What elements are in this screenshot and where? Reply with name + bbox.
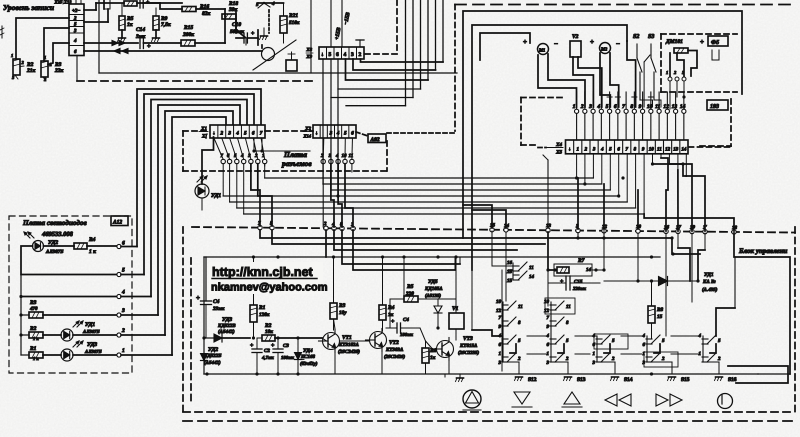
svg-text:+: + — [271, 343, 275, 349]
svg-text:С3: С3 — [283, 343, 289, 349]
svg-text:11: 11 — [529, 265, 534, 271]
svg-text:(б2чб2у): (б2чб2у) — [300, 361, 318, 367]
svg-text:193: 193 — [710, 104, 719, 110]
svg-text:11: 11 — [349, 153, 354, 159]
svg-text:Плата светодиодов: Плата светодиодов — [22, 219, 87, 227]
svg-text:6: 6 — [74, 49, 77, 55]
svg-text:3: 3 — [73, 28, 77, 34]
svg-text:3: 3 — [642, 360, 646, 366]
svg-text:КТ815А: КТ815А — [459, 343, 478, 349]
svg-text:С4: С4 — [403, 317, 409, 323]
svg-text:100мк: 100мк — [281, 355, 294, 361]
svg-text:2: 2 — [661, 356, 665, 362]
svg-text:12: 12 — [665, 147, 671, 153]
svg-text:(2SС2420): (2SС2420) — [384, 354, 405, 360]
svg-text:11: 11 — [518, 304, 523, 310]
svg-text:21к: 21к — [26, 68, 36, 74]
svg-text:nkamnev@yahoo.com: nkamnev@yahoo.com — [211, 282, 328, 294]
svg-text:VТ2: VТ2 — [389, 340, 399, 346]
svg-text:R3: R3 — [29, 300, 37, 306]
svg-text:3: 3 — [351, 52, 354, 58]
svg-text:УД1: УД1 — [85, 322, 95, 328]
svg-text:510к: 510к — [289, 20, 300, 26]
svg-text:2: 2 — [517, 356, 521, 362]
svg-text:КА В:: КА В: — [702, 279, 716, 285]
svg-text:3: 3 — [588, 104, 592, 110]
svg-text:1: 1 — [499, 351, 502, 357]
svg-text:2: 2 — [717, 356, 721, 362]
svg-text:УД4: УД4 — [303, 348, 313, 354]
svg-text:+: + — [147, 43, 151, 50]
svg-text:4: 4 — [344, 52, 347, 58]
svg-text:4: 4 — [600, 147, 604, 153]
svg-text:КС168: КС168 — [300, 354, 315, 360]
svg-text:12: 12 — [496, 308, 502, 314]
svg-text:R21: R21 — [288, 13, 298, 19]
svg-text:+: + — [251, 31, 255, 37]
svg-text:(А5442): (А5442) — [218, 329, 235, 335]
svg-text:R3: R3 — [338, 303, 346, 309]
svg-text:S14: S14 — [624, 377, 633, 383]
svg-text:470: 470 — [29, 306, 38, 312]
svg-text:X14: X14 — [302, 134, 311, 139]
svg-text:R5: R5 — [406, 284, 414, 290]
svg-text:3: 3 — [592, 360, 596, 366]
svg-text:2: 2 — [359, 52, 362, 58]
svg-text:УД1: УД1 — [704, 272, 714, 278]
svg-text:6: 6 — [643, 342, 646, 348]
svg-text:9: 9 — [639, 104, 642, 110]
svg-text:R2: R2 — [29, 326, 37, 332]
svg-text:+: + — [250, 343, 254, 349]
svg-text:1 к: 1 к — [33, 356, 39, 361]
svg-text:4: 4 — [121, 290, 125, 296]
svg-text:S3: S3 — [648, 34, 654, 40]
svg-text:М2: М2 — [600, 47, 608, 52]
svg-text:↓: ↓ — [213, 131, 216, 137]
svg-text:2: 2 — [611, 356, 615, 362]
svg-text:10: 10 — [342, 153, 348, 159]
svg-text:8: 8 — [566, 320, 569, 326]
svg-text:(2SС2235): (2SС2235) — [458, 350, 479, 356]
svg-text:82к: 82к — [202, 11, 211, 17]
svg-text:11: 11 — [655, 104, 660, 110]
svg-text:АЛ307Б: АЛ307Б — [82, 329, 100, 335]
svg-text:+: + — [523, 38, 527, 46]
svg-text:120к: 120к — [259, 312, 270, 318]
svg-text:7,5к: 7,5к — [161, 22, 171, 28]
svg-text:S16: S16 — [728, 377, 737, 383]
svg-text:X5: X5 — [555, 150, 562, 156]
svg-text:↓: ↓ — [321, 52, 324, 58]
svg-text:−15В: −15В — [343, 12, 352, 26]
svg-text:+2−: +2− — [72, 8, 80, 14]
svg-text:13: 13 — [672, 104, 678, 110]
svg-text:А92: А92 — [370, 137, 380, 143]
svg-text:7: 7 — [622, 104, 625, 110]
svg-text:V1: V1 — [452, 306, 459, 312]
svg-text:6: 6 — [336, 52, 339, 58]
svg-text:С15: С15 — [574, 279, 583, 285]
svg-text:R8: R8 — [657, 307, 663, 313]
svg-text:10у: 10у — [339, 310, 347, 316]
svg-text:3: 3 — [227, 131, 231, 137]
svg-text:R1: R1 — [29, 346, 37, 352]
svg-text:13: 13 — [673, 147, 679, 153]
svg-text:С2: С2 — [264, 348, 270, 354]
svg-text:R1: R1 — [258, 305, 266, 311]
svg-text:КТ303А: КТ303А — [385, 347, 404, 353]
svg-text:4: 4 — [336, 131, 340, 137]
svg-text:R15: R15 — [183, 25, 193, 31]
svg-text:ДМ101: ДМ101 — [665, 39, 683, 45]
svg-text:11: 11 — [566, 304, 571, 310]
svg-text:+15В: +15В — [334, 27, 342, 41]
svg-text:5: 5 — [718, 338, 721, 344]
svg-text:X[: X[ — [201, 134, 207, 140]
svg-text:6: 6 — [617, 147, 620, 153]
svg-text:17: 17 — [507, 269, 513, 275]
svg-text:+: + — [590, 38, 594, 46]
svg-text:3: 3 — [592, 147, 596, 153]
svg-text:2: 2 — [219, 131, 223, 137]
svg-text:R4: R4 — [387, 305, 395, 311]
svg-text:4: 4 — [235, 131, 239, 137]
svg-text:↓: ↓ — [568, 148, 571, 153]
svg-text:R7: R7 — [577, 258, 585, 264]
svg-text:7: 7 — [547, 315, 550, 321]
svg-text:1к: 1к — [388, 312, 394, 318]
svg-text:14: 14 — [529, 274, 535, 280]
svg-text:http://knn.cjb.net: http://knn.cjb.net — [212, 265, 314, 279]
svg-text:6: 6 — [547, 342, 550, 348]
svg-text:1: 1 — [122, 348, 125, 354]
svg-text:8: 8 — [630, 104, 633, 110]
svg-text:+: + — [391, 319, 395, 325]
svg-text:S12: S12 — [528, 377, 537, 383]
svg-text:АЛ307Б: АЛ307Б — [45, 249, 64, 255]
svg-text:6: 6 — [252, 131, 255, 137]
svg-text:2: 2 — [21, 60, 25, 65]
svg-text:6: 6 — [614, 104, 617, 110]
svg-text:5: 5 — [329, 52, 332, 58]
svg-text:УД2: УД2 — [208, 347, 218, 353]
svg-text:3: 3 — [498, 360, 502, 366]
svg-text:(А.435): (А.435) — [702, 287, 718, 293]
svg-text:7: 7 — [260, 131, 263, 137]
svg-text:4: 4 — [271, 1, 275, 7]
svg-text:разъемов: разъемов — [281, 159, 312, 168]
svg-text:Блок управлени: Блок управлени — [738, 247, 788, 255]
svg-text:УД3: УД3 — [222, 317, 232, 323]
svg-text:КТ3102А: КТ3102А — [338, 342, 359, 348]
svg-text:23мк: 23мк — [212, 306, 225, 312]
svg-text:С4: С4 — [213, 299, 220, 305]
svg-text:А12: А12 — [112, 220, 122, 226]
svg-text:1к: 1к — [127, 22, 133, 28]
svg-text:4,7мк: 4,7мк — [261, 355, 274, 361]
svg-text:(2SC2420): (2SC2420) — [338, 349, 360, 355]
svg-text:С14: С14 — [136, 27, 145, 33]
svg-text:+: + — [700, 38, 704, 46]
svg-text:УД1: УД1 — [211, 193, 221, 199]
svg-text:5: 5 — [344, 131, 347, 137]
svg-text:10: 10 — [544, 299, 550, 305]
svg-text:5: 5 — [612, 338, 615, 344]
svg-text:14: 14 — [586, 267, 592, 273]
svg-text:5: 5 — [244, 131, 247, 137]
svg-text:10: 10 — [496, 299, 502, 305]
svg-text:−: − — [616, 40, 620, 48]
svg-text:УД3: УД3 — [87, 342, 97, 348]
svg-text:15: 15 — [507, 278, 513, 284]
svg-text:8: 8 — [518, 320, 521, 326]
svg-text:5: 5 — [566, 338, 569, 344]
svg-text:4: 4 — [73, 38, 77, 44]
svg-text:220мк: 220мк — [572, 286, 586, 292]
svg-text:6: 6 — [122, 241, 125, 247]
svg-text:9: 9 — [547, 324, 550, 330]
svg-text:22к: 22к — [54, 68, 64, 74]
svg-text:9: 9 — [499, 324, 502, 330]
svg-text:1: 1 — [573, 104, 576, 110]
svg-text:13: 13 — [546, 223, 552, 229]
svg-text:+: + — [196, 294, 200, 302]
svg-text:16: 16 — [507, 260, 513, 266]
svg-text:1: 1 — [576, 147, 579, 153]
svg-text:S15: S15 — [681, 377, 690, 383]
svg-text:1: 1 — [593, 351, 596, 357]
svg-text:7: 7 — [625, 147, 628, 153]
svg-text:9: 9 — [642, 147, 645, 153]
svg-text:Уровень записи: Уровень записи — [3, 3, 54, 12]
svg-text:3: 3 — [329, 131, 333, 137]
svg-text:V2: V2 — [572, 34, 579, 40]
svg-text:11: 11 — [657, 147, 662, 153]
svg-text:15: 15 — [657, 314, 663, 320]
svg-text:6: 6 — [499, 342, 502, 348]
svg-text:R4: R4 — [88, 237, 96, 243]
svg-text:2: 2 — [121, 328, 125, 334]
svg-text:5: 5 — [609, 147, 612, 153]
svg-text:УД5: УД5 — [428, 279, 438, 285]
svg-text:2: 2 — [584, 147, 588, 153]
svg-text:1 к: 1 к — [33, 336, 39, 341]
svg-text:↓: ↓ — [315, 131, 318, 137]
svg-text:КД522В: КД522В — [217, 323, 236, 329]
svg-text:(А5135): (А5135) — [425, 293, 441, 299]
svg-text:АЛ307Б: АЛ307Б — [84, 349, 102, 355]
svg-text:2: 2 — [565, 356, 569, 362]
svg-text:5: 5 — [606, 104, 609, 110]
svg-text:2: 2 — [580, 104, 584, 110]
svg-text:5: 5 — [122, 268, 125, 274]
svg-text:1: 1 — [666, 70, 668, 75]
svg-text:6: 6 — [351, 131, 354, 137]
svg-text:1к: 1к — [430, 355, 436, 361]
svg-text:14: 14 — [680, 104, 686, 110]
svg-text:5: 5 — [662, 338, 665, 344]
svg-text:3: 3 — [546, 360, 550, 366]
svg-text:УД2: УД2 — [48, 240, 58, 246]
svg-text:М1: М1 — [538, 48, 545, 53]
svg-text:+: + — [560, 279, 564, 285]
svg-text:7: 7 — [499, 315, 502, 321]
svg-text:2: 2 — [73, 16, 77, 22]
svg-text:10к: 10к — [265, 329, 273, 335]
svg-text:8: 8 — [634, 147, 637, 153]
svg-text:1: 1 — [11, 53, 13, 58]
svg-text:VТ1: VТ1 — [342, 335, 352, 341]
svg-text:X25: X25 — [53, 0, 62, 5]
svg-text:5: 5 — [518, 338, 521, 344]
svg-text:VТ3: VТ3 — [463, 336, 473, 342]
svg-text:−: − — [554, 40, 558, 48]
svg-text:3: 3 — [121, 308, 125, 314]
svg-text:S2: S2 — [633, 34, 639, 40]
svg-text:200к: 200к — [182, 32, 194, 38]
svg-text:100мк: 100мк — [400, 332, 413, 338]
svg-text:10: 10 — [647, 104, 653, 110]
svg-text:2: 2 — [673, 70, 677, 75]
svg-text:10: 10 — [649, 147, 655, 153]
svg-text:Ф5: Ф5 — [711, 40, 719, 46]
svg-text:12: 12 — [663, 104, 669, 110]
svg-text:S13: S13 — [577, 377, 586, 383]
svg-text:КД105А: КД105А — [424, 286, 443, 292]
svg-text:469533.008: 469533.008 — [41, 231, 74, 238]
svg-text:4: 4 — [596, 104, 600, 110]
svg-text:12: 12 — [544, 308, 550, 314]
svg-text:14: 14 — [681, 147, 687, 153]
svg-text:1 к: 1 к — [89, 249, 96, 255]
